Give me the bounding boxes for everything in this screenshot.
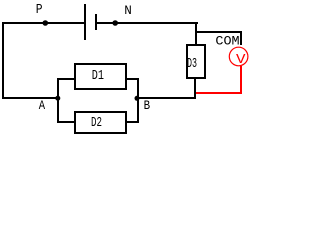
wire B stub vertical xyxy=(137,78,139,123)
voltmeter U1 xyxy=(229,47,248,66)
svg-text:A: A xyxy=(39,98,45,113)
voltmeter V symbol xyxy=(236,52,246,68)
wire D1 right lead xyxy=(127,78,139,80)
wire D3 bottom stem xyxy=(194,78,196,99)
label A xyxy=(39,98,45,113)
svg-text:B: B xyxy=(144,98,151,113)
svg-text:D3: D3 xyxy=(187,56,197,72)
wire A stub vertical xyxy=(57,78,59,123)
svg-text:D1: D1 xyxy=(92,68,104,84)
node B xyxy=(135,96,140,101)
wire D2 right lead xyxy=(127,121,139,123)
label COM xyxy=(215,34,239,49)
red wire voltmeter vertical xyxy=(240,66,242,94)
node P xyxy=(43,20,49,26)
label P xyxy=(36,2,43,18)
wire D3 top stem xyxy=(195,22,197,45)
node A xyxy=(55,96,60,101)
wire to COM terminal xyxy=(195,31,242,33)
svg-text:D2: D2 xyxy=(91,115,102,131)
battery short plate (negative) xyxy=(95,14,97,30)
node N xyxy=(112,20,118,26)
svg-text:COM: COM xyxy=(215,34,239,49)
resistor D1 xyxy=(74,63,127,90)
label B xyxy=(144,98,151,113)
resistor D3 xyxy=(186,44,206,79)
svg-text:V: V xyxy=(236,52,246,68)
label D1 xyxy=(92,68,104,84)
label D2 xyxy=(91,115,102,131)
wire D1 left lead xyxy=(57,78,74,80)
red wire voltmeter horizontal xyxy=(196,92,242,94)
wire left side xyxy=(2,22,4,99)
wire top-right segment xyxy=(97,22,198,24)
svg-text:P: P xyxy=(36,2,43,18)
svg-text:N: N xyxy=(124,3,132,18)
resistor D2 xyxy=(74,111,127,134)
wire top-left segment xyxy=(2,22,84,24)
label N xyxy=(124,3,132,18)
wire bottom-left segment xyxy=(2,97,58,99)
wire COM drop xyxy=(240,31,242,45)
battery long plate (positive) xyxy=(84,4,86,40)
wire D2 left lead xyxy=(57,121,74,123)
label D3 xyxy=(187,56,197,72)
wire B to D3 bottom xyxy=(137,97,196,99)
